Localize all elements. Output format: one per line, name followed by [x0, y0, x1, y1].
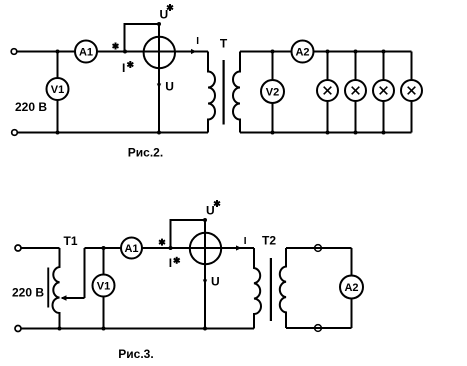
terminal: secondary top connector (fig.3)	[315, 245, 322, 252]
svg-text:U: U	[165, 79, 174, 93]
svg-text:V1: V1	[97, 281, 110, 293]
node: lamp3 bottom junction (fig.2)	[382, 131, 386, 135]
node: current-coil * junction (fig.3)	[169, 246, 173, 250]
label: current arrow I after wattmeter (fig.2)	[191, 49, 197, 54]
lamp EL2 (fig.2)	[345, 80, 366, 101]
wire: top bus fig.2 from input to transformer primary	[17, 51, 208, 53]
wire: U* potential lead bracket (fig.3)	[171, 220, 206, 248]
wire: lamp branch 2 (fig.2)	[355, 52, 357, 133]
transformer T2 secondary winding (fig.3)	[280, 248, 286, 328]
node: current-coil * junction (fig.2)	[123, 50, 127, 54]
wattmeter W (fig.3) body	[190, 233, 221, 264]
svg-text:T1: T1	[63, 234, 77, 248]
wire: lamp branch 1 (fig.2)	[327, 52, 329, 133]
svg-text:A2: A2	[295, 47, 309, 59]
node: lamp2 top junction (fig.2)	[354, 50, 358, 54]
node: U* corner junction (fig.3)	[203, 218, 207, 222]
wire: wiper riser up to top bus (fig.3)	[84, 248, 86, 298]
wire: V2 branch (fig.2)	[272, 52, 274, 133]
wire: T1 wiper tap with arrow (fig.3)	[62, 297, 85, 299]
node: V2 bottom junction (fig.2)	[271, 131, 275, 135]
voltmeter V1 (fig.2)	[47, 78, 69, 100]
wire: top bus from T1 wiper riser to T2 primary (fig.3)	[85, 247, 255, 249]
svg-text:T2: T2	[262, 234, 276, 248]
svg-text:A1: A1	[124, 243, 138, 255]
svg-text:Рис.3.: Рис.3.	[118, 347, 153, 361]
node: T1 bottom junction (fig.3)	[58, 327, 62, 331]
wire: secondary loop top (fig.3)	[286, 247, 352, 249]
wire: U* potential lead bracket (fig.2)	[125, 24, 160, 52]
svg-text:U: U	[211, 275, 220, 289]
label: U with down arrow on voltage lead (fig.3)	[203, 280, 207, 285]
svg-text:T: T	[220, 36, 228, 50]
wire: voltage-coil lead U down to bottom bus (fig.3)	[204, 220, 206, 329]
transformer T2 core (fig.3)	[270, 258, 272, 321]
node: V2 top junction (fig.2)	[271, 50, 275, 54]
wire: lamp branch 3 (fig.2)	[383, 52, 385, 133]
svg-text:U: U	[160, 8, 169, 22]
node: V1 top junction (fig.2)	[56, 50, 60, 54]
transformer T secondary winding (fig.2)	[233, 52, 240, 133]
svg-text:220 В: 220 В	[15, 100, 47, 114]
ammeter A2 (fig.3)	[340, 276, 363, 299]
label: * polarity mark of current coil (fig.3)	[159, 239, 165, 246]
autotransformer T1 core bar (fig.3)	[47, 268, 49, 308]
label: current arrow I after wattmeter (fig.3)	[236, 245, 242, 250]
svg-text:220 В: 220 В	[12, 286, 44, 300]
wire: V1 branch (fig.3)	[103, 248, 105, 329]
node: lamp2 bottom junction (fig.2)	[354, 131, 358, 135]
svg-text:U: U	[206, 204, 215, 218]
svg-text:V2: V2	[266, 87, 279, 99]
wire: voltage-coil lead U down to bottom bus (fig.2)	[158, 24, 160, 133]
wire: secondary loop right side (fig.3)	[351, 248, 353, 328]
node: V1 bottom junction (fig.3)	[102, 327, 106, 331]
svg-text:I: I	[169, 256, 172, 270]
wire: top lead from input terminal to T1 (fig.3)	[21, 247, 60, 249]
node: lamp1 bottom junction (fig.2)	[326, 131, 330, 135]
wire: secondary top bus (fig.2)	[240, 51, 412, 53]
node: V1 bottom junction (fig.2)	[56, 131, 60, 135]
node: lamp1 top junction (fig.2)	[326, 50, 330, 54]
svg-text:I: I	[196, 36, 199, 47]
voltmeter V1 (fig.3)	[93, 275, 115, 297]
ammeter A2 (fig.2)	[292, 41, 314, 63]
terminal: input top (fig.2)	[11, 49, 17, 55]
node: U lead bottom junction (fig.3)	[203, 327, 207, 331]
svg-text:V1: V1	[51, 84, 64, 96]
svg-text:A2: A2	[344, 282, 358, 294]
ammeter A1 (fig.2)	[75, 41, 97, 63]
transformer T core (fig.2)	[223, 60, 225, 125]
wire: secondary bottom bus (fig.2)	[240, 132, 412, 134]
lamp EL3 (fig.2)	[373, 80, 394, 101]
terminal: input bottom (fig.2)	[12, 130, 18, 136]
wire: V1 branch (fig.2)	[57, 52, 59, 133]
wire: bottom bus fig.3	[21, 328, 254, 330]
autotransformer T1 winding (fig.3)	[53, 248, 60, 329]
svg-text:I: I	[244, 236, 247, 247]
terminal: input bottom (fig.3)	[15, 326, 21, 332]
terminal: secondary bottom connector (fig.3)	[315, 325, 322, 332]
ammeter A1 (fig.3)	[121, 238, 142, 259]
lamp EL4 (fig.2)	[401, 80, 422, 101]
svg-text:Рис.2.: Рис.2.	[128, 146, 163, 160]
node: U lead bottom junction (fig.2)	[157, 131, 161, 135]
svg-text:A1: A1	[79, 47, 93, 59]
voltmeter V2 (fig.2)	[261, 80, 284, 103]
transformer T primary winding (fig.2)	[208, 52, 215, 133]
lamp EL1 (fig.2)	[317, 80, 338, 101]
wattmeter W (fig.2) body	[144, 37, 175, 68]
wire: secondary loop bottom (fig.3)	[286, 327, 352, 329]
node: V1 top junction (fig.3)	[102, 246, 106, 250]
node: lamp3 top junction (fig.2)	[382, 50, 386, 54]
wire: lamp branch 4 right edge (fig.2)	[411, 52, 413, 133]
label: U with down arrow on voltage lead (fig.2)	[157, 84, 161, 89]
svg-text:I: I	[122, 61, 125, 75]
transformer T2 primary winding (fig.3)	[254, 248, 261, 329]
terminal: input top (fig.3)	[15, 245, 21, 251]
label: * polarity mark of current coil (fig.2)	[113, 43, 119, 50]
wire: bottom bus fig.2 primary side	[17, 132, 208, 134]
node: U* corner junction (fig.2)	[157, 22, 161, 26]
